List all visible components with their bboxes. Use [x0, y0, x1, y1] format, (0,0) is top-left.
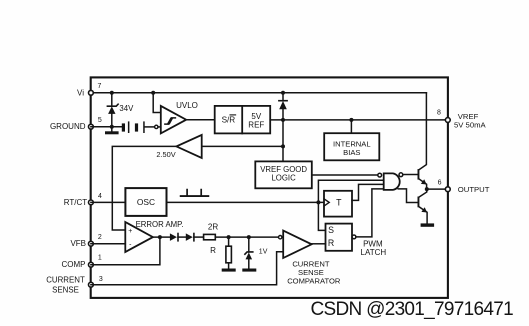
battery reference stack: [122, 121, 145, 133]
block OSC: [125, 188, 166, 216]
svg-text:+: +: [128, 228, 132, 235]
transistor Q2 (lower totem pole): [418, 189, 428, 223]
wire UVLO top input from rail: [153, 93, 161, 113]
wire output node to pin 6: [427, 188, 448, 190]
comparator input bubble: [279, 236, 282, 239]
wire OSC clock output: [167, 201, 325, 203]
latch output bubble: [352, 235, 356, 239]
block VREF GOOD LOGIC: [255, 161, 311, 188]
pin 1 COMP: [89, 262, 94, 267]
wire clock to latch S input: [318, 202, 325, 230]
wire gate to lower transistor base: [398, 189, 417, 203]
pin 5 GROUND: [89, 124, 94, 129]
svg-text:2.50V: 2.50V: [156, 150, 175, 159]
op-amp 2.50V reference buffer: [176, 135, 201, 158]
zener diode 1V: [245, 237, 253, 268]
wire T output to gate: [352, 184, 384, 200]
transistor Q1 (upper totem pole): [418, 93, 427, 189]
resistor 2R: [204, 234, 216, 239]
wire INTERNAL BIAS to VREF line: [350, 120, 352, 133]
svg-text:R: R: [328, 238, 334, 248]
svg-text:UVLO: UVLO: [176, 101, 198, 110]
block T flip-flop: [324, 191, 352, 217]
svg-text:CURRENT: CURRENT: [46, 276, 85, 285]
svg-text:4: 4: [98, 193, 102, 200]
wire diode branch vertical: [282, 93, 284, 162]
pin 2 VFB: [89, 241, 94, 246]
wire latch output to gate: [356, 189, 384, 237]
svg-text:VFB: VFB: [70, 239, 86, 248]
node zener top on rail: [110, 91, 114, 95]
svg-text:Vi: Vi: [77, 88, 84, 97]
svg-text:S: S: [328, 225, 334, 235]
wire zener branch: [111, 93, 113, 127]
pin 6 OUTPUT: [445, 187, 450, 192]
svg-text:LATCH: LATCH: [361, 248, 387, 257]
svg-text:LOGIC: LOGIC: [271, 174, 296, 183]
svg-text:8: 8: [437, 109, 441, 116]
op-amp current sense comparator: [283, 231, 311, 258]
wire VREF GOOD to gate bubble: [312, 174, 378, 176]
gate NOR (output driver): [384, 173, 400, 190]
node R tap: [227, 235, 231, 239]
node error amp output: [158, 235, 162, 239]
wire 2.50V output to error amp + input: [112, 146, 176, 230]
block INTERNAL BIAS: [324, 133, 379, 160]
hysteresis glyph: [165, 118, 176, 124]
svg-text:GROUND: GROUND: [50, 122, 86, 131]
svg-text:7: 7: [98, 83, 102, 90]
ground (under Q2): [421, 223, 435, 226]
diode D2: [186, 233, 194, 241]
svg-text:5: 5: [98, 117, 102, 124]
pin 3 CURRENT SENSE: [89, 282, 94, 287]
svg-text:ERROR AMP.: ERROR AMP.: [136, 220, 184, 229]
resistor R (to ground): [226, 237, 232, 268]
block PWM latch S/R: [326, 224, 353, 251]
svg-text:2: 2: [98, 234, 102, 241]
wire pin3 to comparator lower input: [91, 252, 283, 285]
block S/R + 5V REF: [215, 106, 271, 133]
svg-text:2R: 2R: [208, 222, 219, 231]
wire comparator output to latch R: [312, 243, 326, 245]
node 1V tap: [247, 235, 251, 239]
node INTERNAL BIAS tap: [349, 118, 353, 122]
node diode top on rail: [281, 91, 285, 95]
svg-text:T: T: [336, 198, 342, 208]
svg-text:R: R: [210, 246, 216, 255]
svg-text:BIAS: BIAS: [343, 148, 360, 157]
wire COMP feedback to error amp output: [91, 237, 160, 265]
node 2.50V tap: [281, 144, 285, 148]
svg-text:6: 6: [438, 180, 442, 187]
op-amp error amplifier: [125, 222, 153, 252]
wire pin4 to OSC: [91, 201, 126, 203]
wire bubble to UVLO: [158, 126, 161, 128]
wire UVLO output to S/R: [186, 119, 215, 121]
node ground junction: [110, 125, 114, 129]
IC outline box: [91, 77, 448, 298]
svg-text:SENSE: SENSE: [52, 286, 79, 295]
node UVLO tap on rail: [151, 91, 155, 95]
ground (under R): [222, 269, 236, 272]
svg-text:COMPARATOR: COMPARATOR: [287, 277, 341, 286]
svg-text:1V: 1V: [259, 249, 268, 256]
wire 2.50V input from VREF rail: [202, 145, 283, 147]
wire clock to gate input: [318, 180, 383, 202]
diode (VREF to Vi): [279, 101, 287, 110]
svg-text:S/R: S/R: [222, 116, 236, 125]
wire Vi rail (pin7 to output transistor collector): [91, 92, 427, 94]
clock waveform glyph: [181, 190, 209, 197]
node VREF junction: [281, 118, 285, 122]
svg-text:CSDN @2301_79716471: CSDN @2301_79716471: [311, 299, 514, 320]
gate output bubble: [399, 173, 403, 177]
zener diode 34V: [107, 104, 118, 114]
pin 7 Vi: [89, 90, 94, 95]
ground (under 34V zener): [105, 127, 119, 135]
UVLO input bubble: [155, 125, 158, 128]
gate input bubble (VREF good): [378, 173, 382, 177]
wire pin2 to error amp - input: [91, 243, 125, 245]
svg-text:REF: REF: [248, 120, 264, 129]
svg-text:5V 50mA: 5V 50mA: [454, 121, 486, 130]
wire error amp output: [153, 236, 170, 238]
op-amp UVLO comparator: [161, 106, 186, 133]
wire pin5 to battery: [91, 126, 122, 128]
wire D1 to D2: [178, 236, 186, 238]
clock caret: [324, 199, 329, 206]
pin 4 RT/CT: [89, 200, 94, 205]
node output junction: [425, 187, 429, 191]
diode D1: [170, 233, 178, 241]
svg-text:34V: 34V: [119, 104, 134, 113]
pin 8 VREF: [445, 118, 450, 123]
wire gate to upper transistor base: [403, 174, 418, 176]
svg-text:3: 3: [99, 276, 103, 283]
wire VREF line to pin 8: [270, 119, 448, 121]
wire battery to UVLO bubble: [145, 126, 155, 128]
wire D2 to 2R: [194, 236, 204, 238]
wire 2R to comparator: [215, 236, 278, 238]
svg-text:OSC: OSC: [137, 197, 155, 207]
svg-text:OUTPUT: OUTPUT: [458, 185, 490, 194]
svg-text:COMP: COMP: [62, 260, 86, 269]
svg-text:1: 1: [98, 255, 102, 262]
svg-text:RT/CT: RT/CT: [64, 198, 88, 207]
node clock branch: [316, 200, 320, 204]
ground (under 1V): [242, 269, 256, 272]
